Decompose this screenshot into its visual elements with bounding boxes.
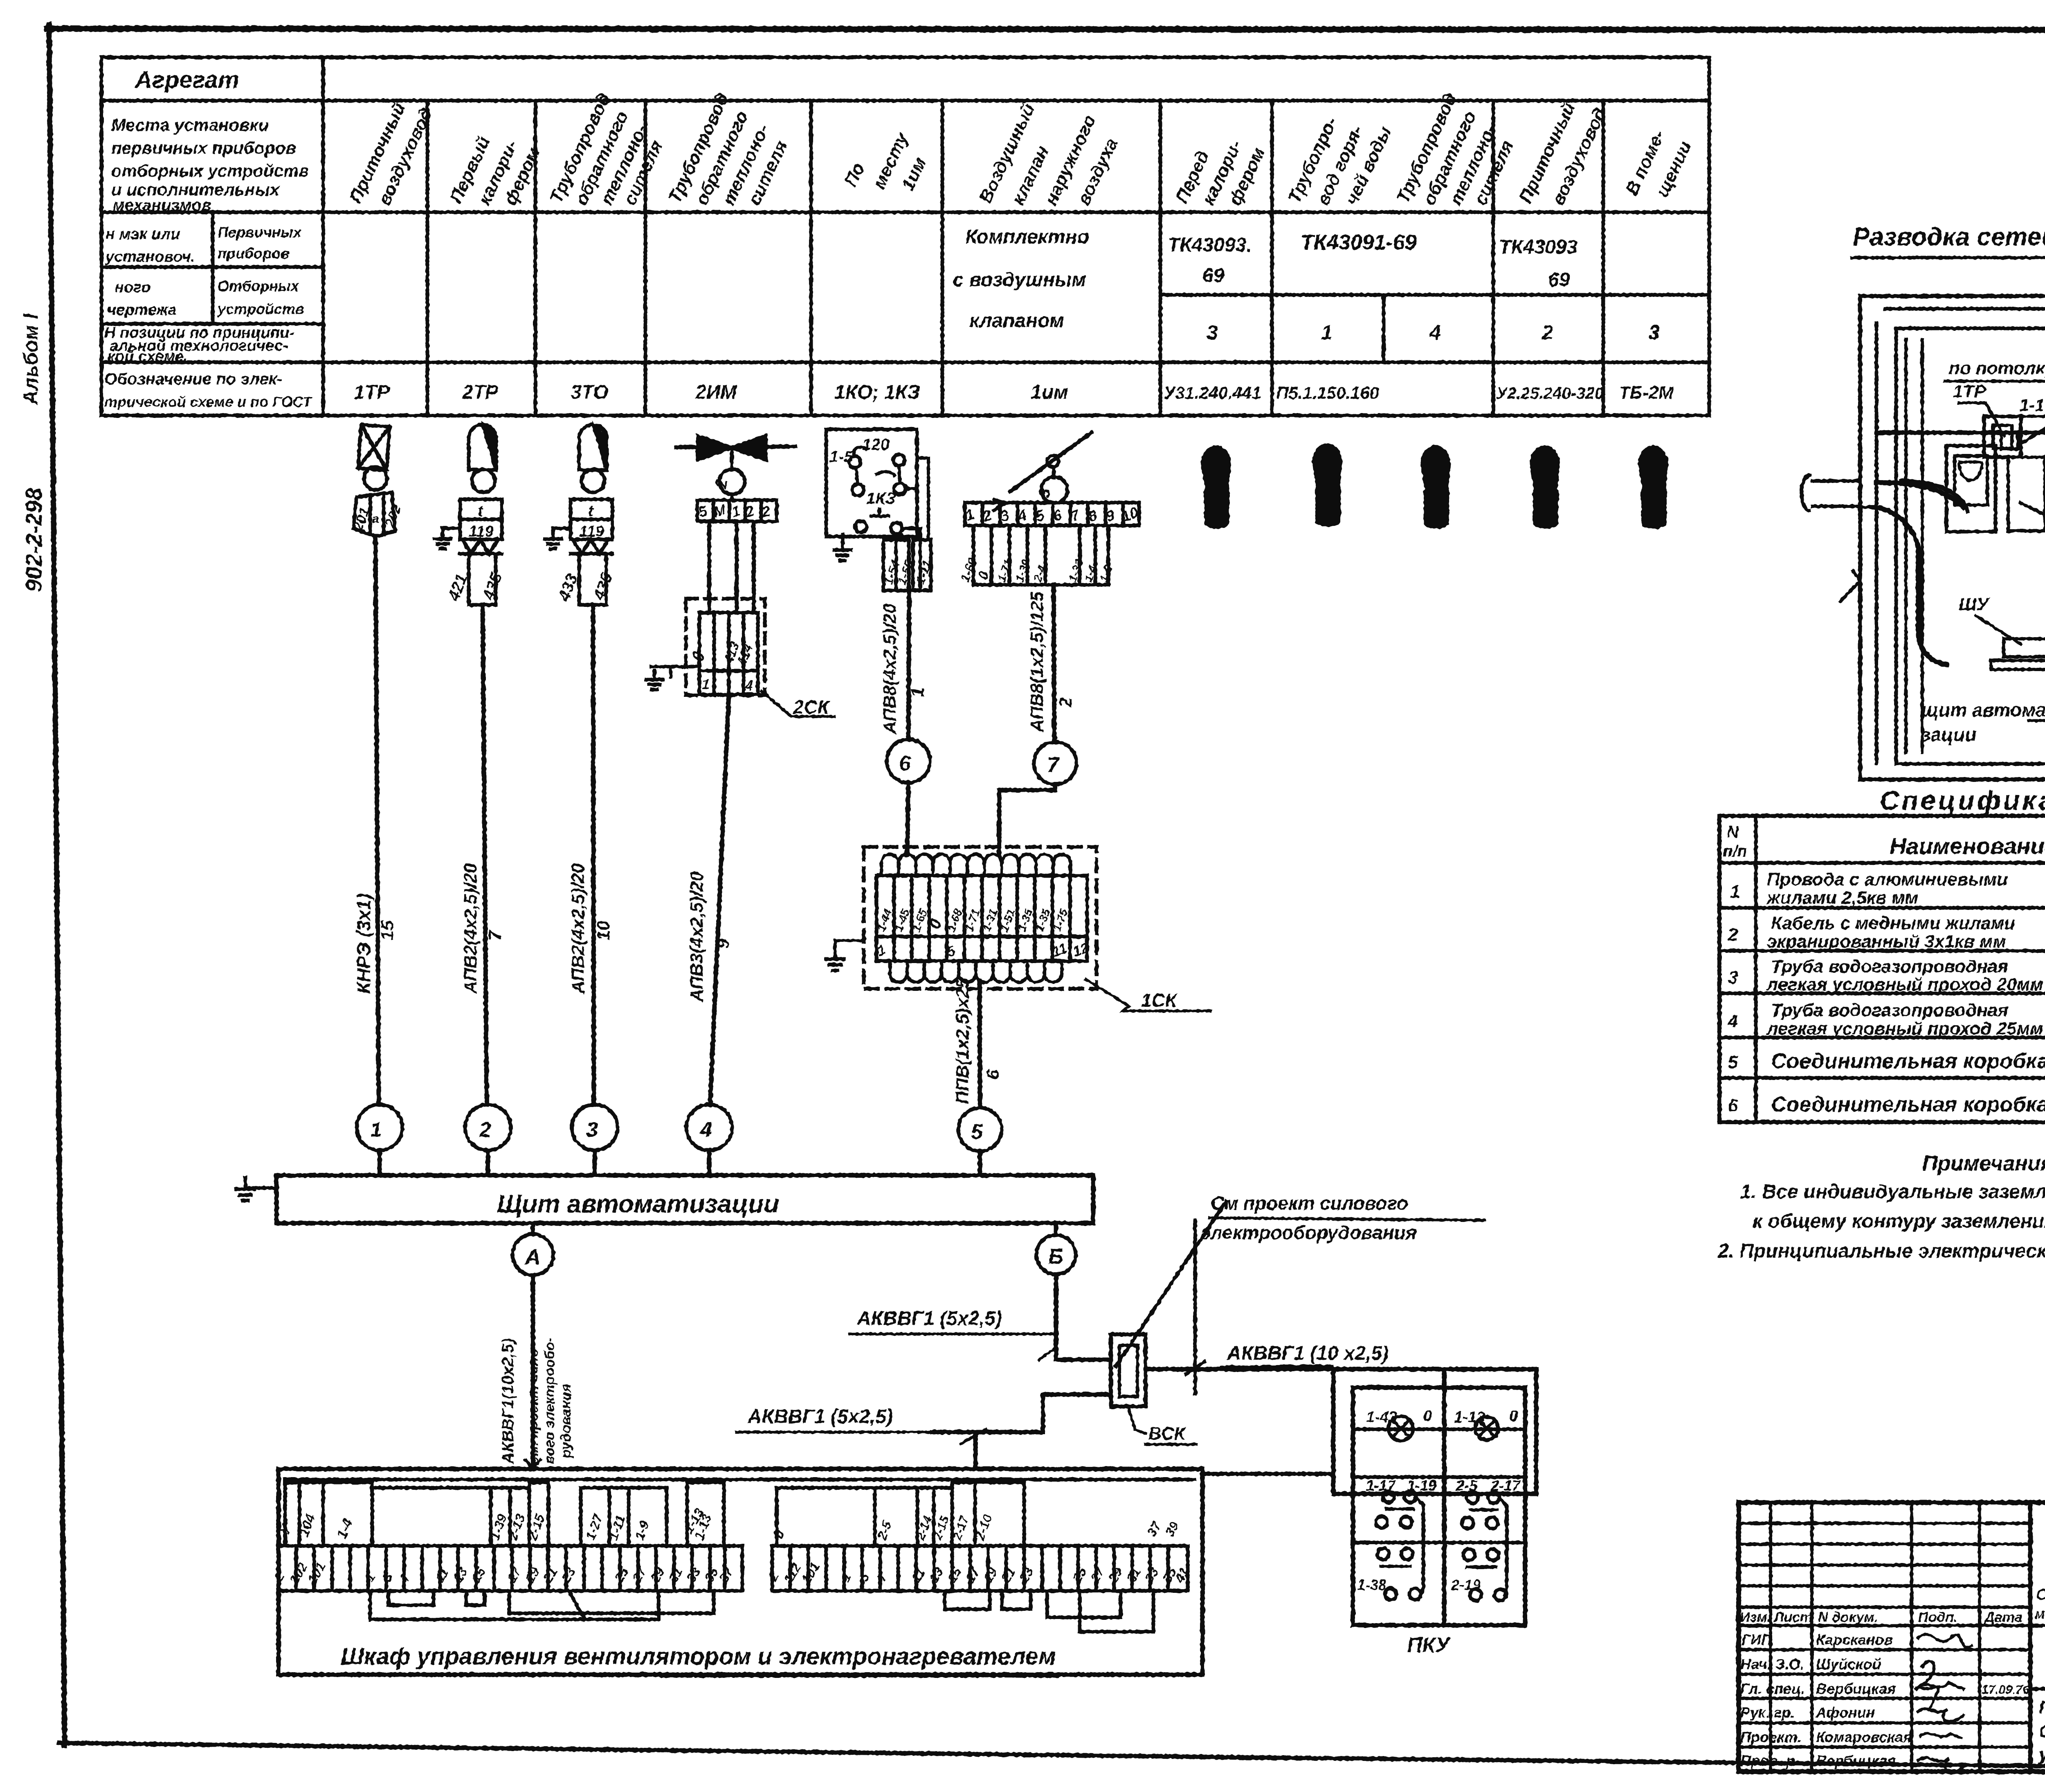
svg-text:см. проект сило-: см. проект сило-: [526, 1344, 541, 1464]
svg-text:Труба водогазопроводная: Труба водогазопроводная: [1771, 1000, 2008, 1020]
left terminal strip: [278, 1546, 742, 1591]
svg-text:Отборных: Отборных: [218, 278, 300, 294]
sheet top border: [47, 29, 2045, 30]
svg-text:31: 31: [1124, 1565, 1144, 1585]
svg-text:Альбом I: Альбом I: [19, 313, 42, 406]
svg-text:П5.1.150.160: П5.1.150.160: [1276, 383, 1379, 402]
svg-text:1-38: 1-38: [1357, 1576, 1387, 1593]
duct curve to fan: [1876, 483, 1963, 507]
svg-text:27: 27: [629, 1564, 650, 1585]
svg-text:1: 1: [702, 677, 710, 692]
svg-text:13: 13: [926, 1565, 946, 1585]
contact circles row4: [1385, 1588, 1396, 1600]
svg-text:ППВ(1х2,5)х25: ППВ(1х2,5)х25: [953, 978, 973, 1104]
right bracket jumpers: [945, 1591, 990, 1609]
svg-text:Изм.: Изм.: [1740, 1610, 1771, 1625]
svg-text:25: 25: [611, 1565, 631, 1585]
svg-text:1КО; 1КЗ: 1КО; 1КЗ: [834, 382, 920, 403]
relay terminal strips 1-52 1-53 1-11: [883, 540, 909, 591]
svg-text:Пров. р: Пров. р: [1740, 1752, 1795, 1769]
svg-text:По: По: [840, 159, 869, 190]
svg-text:Места установки: Места установки: [111, 115, 269, 135]
ПКУ divider vertical: [1442, 1369, 1447, 1625]
terminal strip 1..10: [965, 503, 1139, 525]
sensor 3TO bulb: [579, 425, 607, 470]
title block main vertical: [2028, 1502, 2033, 1772]
valve actuator circle 2: [719, 469, 745, 494]
duct from left wall (curved): [1860, 505, 1876, 509]
svg-text:АКВВГ1 (5х2,5): АКВВГ1 (5х2,5): [856, 1308, 1002, 1329]
svg-text:1СК: 1СК: [1141, 990, 1178, 1011]
contact circles row3: [1378, 1548, 1389, 1560]
1СК top humps: [881, 854, 1070, 876]
wire from relay to node 6: [908, 591, 909, 739]
bent wires in ПКУ: [1416, 1498, 1423, 1594]
svg-text:Соединительная коробка: Соединительная коробка: [1771, 1049, 2045, 1073]
svg-text:31: 31: [665, 1565, 685, 1585]
wire valve actuator to strip: [730, 494, 734, 500]
left grid horizontals: [1739, 1523, 2030, 1747]
svg-text:101: 101: [305, 1560, 328, 1586]
svg-text:легкая условный проход 20мм: легкая условный проход 20мм: [1766, 975, 2043, 995]
svg-text:33: 33: [683, 1565, 703, 1585]
svg-text:а: а: [372, 512, 379, 525]
svg-text:1-9: 1-9: [632, 1519, 652, 1542]
svg-text:29: 29: [1105, 1565, 1126, 1585]
svg-text:7: 7: [1047, 753, 1060, 777]
ground at 3TO: [553, 528, 571, 539]
wire node6 to 1СК: [907, 783, 908, 855]
svg-text:19: 19: [522, 1565, 542, 1585]
svg-text:щит автомати-: щит автомати-: [1921, 699, 2045, 721]
svg-text:Очистные сооружения для сто: Очистные сооружения для сточных вод от м…: [2036, 1586, 2045, 1603]
svg-text:3: 3: [586, 1118, 598, 1142]
node circle 7: [1034, 742, 1076, 784]
svg-text:ПКУ: ПКУ: [1407, 1633, 1451, 1657]
wire 3 to panel: [593, 1150, 597, 1175]
svg-text:9: 9: [713, 939, 733, 949]
svg-text:мобилей с расходом воды 20л: мобилей с расходом воды 20л/сек при обор…: [2035, 1606, 2045, 1622]
svg-text:102: 102: [287, 1560, 310, 1586]
svg-text:21: 21: [540, 1565, 560, 1585]
wire arrow into cabinet from А: [526, 1460, 540, 1469]
svg-text:3: 3: [1648, 321, 1660, 344]
plan outer wall left double: [1858, 296, 1862, 779]
node circle 4: [686, 1105, 732, 1150]
left strip numbers: [271, 1506, 737, 1586]
svg-text:легкая условный проход 25м: легкая условный проход 25мм: [1766, 1019, 2043, 1039]
svg-text:Шуйской: Шуйской: [1816, 1656, 1881, 1673]
svg-text:15: 15: [468, 1565, 489, 1585]
table horizontal lines: [101, 99, 1709, 103]
svg-text:2ТР: 2ТР: [462, 382, 499, 403]
ПКУ inner box: [1353, 1388, 1525, 1625]
left wall chase double lines: [1906, 339, 1922, 752]
svg-text:Соединительная коробка: Соединительная коробка: [1771, 1093, 2045, 1116]
svg-text:Гл. спец.: Гл. спец.: [1740, 1680, 1805, 1697]
wire 1 to panel: [378, 1150, 382, 1175]
svg-text:Шкаф управления вентилятор: Шкаф управления вентилятором и электрона…: [341, 1643, 1056, 1670]
svg-text:6: 6: [983, 1069, 1003, 1080]
svg-text:1: 1: [730, 502, 742, 521]
svg-text:1-39: 1-39: [1013, 557, 1033, 584]
svg-text:1им: 1им: [898, 154, 930, 194]
svg-text:1: 1: [1321, 321, 1333, 344]
svg-text:АПВ8(4х2,5)/20: АПВ8(4х2,5)/20: [880, 603, 900, 734]
row divider 2: [1353, 1541, 1525, 1545]
svg-text:Вербицкая: Вербицкая: [1816, 1680, 1896, 1697]
svg-text:вого электрообо-: вого электрообо-: [542, 1338, 557, 1464]
svg-text:17: 17: [962, 1564, 983, 1585]
plan inner room walls: [1896, 328, 2045, 764]
svg-text:37: 37: [1144, 1518, 1164, 1539]
wires from strip to 2СК: [709, 521, 754, 613]
svg-text:устройств: устройств: [217, 301, 304, 317]
svg-text:2. Принципиальные электричес: 2. Принципиальные электрические схемы см…: [1717, 1240, 2045, 1262]
svg-text:3: 3: [1207, 321, 1218, 344]
right strip numbers: [765, 1518, 1191, 1586]
2СК terminal block: [699, 613, 758, 694]
svg-text:1ТР: 1ТР: [1953, 382, 1986, 402]
svg-text:ТК43093: ТК43093: [1499, 236, 1578, 258]
svg-text:5: 5: [971, 1120, 983, 1144]
svg-text:10: 10: [593, 921, 613, 941]
plan outer wall top double: [1860, 294, 2045, 298]
svg-text:1: 1: [1730, 882, 1740, 902]
svg-text:ШУ: ШУ: [1959, 594, 1990, 614]
svg-text:АПВ2(4х2,5)/20: АПВ2(4х2,5)/20: [568, 863, 588, 994]
svg-text:39: 39: [1162, 1519, 1182, 1539]
svg-text:1-43: 1-43: [1366, 1409, 1397, 1426]
junction box 2СК dashed: [686, 599, 765, 695]
lamp row line: [1353, 1428, 1525, 1431]
svg-text:электрооборудования: электрооборудования: [1200, 1222, 1417, 1243]
ПКУ outer box: [1333, 1369, 1536, 1494]
svg-text:зации: зации: [1921, 724, 1976, 745]
svg-text:1ТР: 1ТР: [354, 382, 390, 403]
svg-text:33: 33: [1142, 1565, 1162, 1585]
svg-text:1: 1: [362, 1570, 378, 1584]
svg-text:1им: 1им: [1031, 382, 1068, 403]
main ceiling cable line: [1876, 431, 2045, 435]
svg-text:ГИП: ГИП: [1742, 1631, 1772, 1648]
wire ВСК to ПКУ АКВВГ1(10х2,5): [1146, 1367, 1333, 1372]
svg-text:N докум.: N докум.: [1818, 1610, 1878, 1625]
svg-text:2СК: 2СК: [793, 696, 830, 718]
svg-text:кой схеме.: кой схеме.: [107, 348, 188, 365]
svg-text:Наименование: Наименование: [1890, 833, 2045, 859]
wire 5 to panel: [978, 1151, 982, 1175]
svg-text:37: 37: [716, 1564, 737, 1585]
svg-text:АКВВГ1 (5х2,5): АКВВГ1 (5х2,5): [747, 1406, 893, 1428]
wire 1: [375, 537, 379, 1104]
svg-text:Щит автоматизации: Щит автоматизации: [497, 1190, 779, 1218]
svg-text:69: 69: [1202, 265, 1225, 287]
svg-text:2ИМ: 2ИМ: [695, 382, 737, 403]
svg-text:Спецификация: Спецификация: [1880, 785, 2045, 815]
svg-text:27: 27: [1087, 1564, 1108, 1585]
svg-text:ТБ-2М: ТБ-2М: [1619, 383, 1674, 403]
equipment below 1ТР: [2008, 457, 2045, 531]
left grid verticals: [1771, 1502, 1980, 1772]
svg-text:Труба водогазопроводная: Труба водогазопроводная: [1771, 957, 2008, 977]
svg-text:435: 435: [479, 570, 506, 603]
sheet left border: [49, 25, 65, 1745]
svg-text:механизмов: механизмов: [112, 196, 211, 214]
node circle Б: [1054, 1223, 1058, 1235]
svg-text:23: 23: [1016, 1565, 1036, 1585]
wire from strip to node 7: [1054, 585, 1054, 742]
svg-text:АПВ8(1х2,5)/125: АПВ8(1х2,5)/125: [1027, 591, 1047, 732]
svg-text:25: 25: [1069, 1565, 1090, 1585]
svg-text:Афонин: Афонин: [1816, 1704, 1875, 1721]
right header boxes: [777, 1488, 875, 1546]
sensor 2TP head box t/119: [460, 499, 502, 539]
svg-text:17.09.76: 17.09.76: [1982, 1683, 2029, 1697]
diffuser cone: [2021, 416, 2045, 524]
svg-text:1-27: 1-27: [583, 1511, 606, 1542]
svg-text:435: 435: [590, 570, 616, 603]
svg-text:4: 4: [1429, 321, 1441, 344]
sensor 3TO circle: [582, 469, 605, 492]
svg-text:Дата: Дата: [1983, 1610, 2023, 1625]
svg-text:3: 3: [1035, 487, 1054, 499]
svg-text:23: 23: [558, 1565, 578, 1585]
svg-text:4: 4: [745, 678, 753, 694]
svg-text:21: 21: [998, 1565, 1018, 1585]
svg-text:5: 5: [856, 1570, 873, 1584]
wire node7 to 1СК: [999, 784, 1055, 855]
svg-text:ВСК: ВСК: [1148, 1424, 1186, 1444]
svg-text:Комаровская: Комаровская: [1816, 1729, 1912, 1745]
svg-text:4: 4: [1728, 1011, 1738, 1031]
svg-text:101: 101: [799, 1560, 822, 1586]
spec table horizontals: [1719, 863, 2045, 1078]
sensor 2TP circle: [472, 469, 495, 492]
svg-text:КНРЭ (3х1): КНРЭ (3х1): [353, 894, 374, 994]
svg-text:4: 4: [700, 1118, 712, 1142]
svg-text:7: 7: [485, 930, 505, 941]
sensor 2TP bulb: [469, 425, 496, 470]
ШУ box: [2004, 639, 2045, 657]
title block outer: [1739, 1502, 2045, 1772]
node circle 5: [958, 1108, 1002, 1151]
svg-text:11: 11: [432, 1566, 452, 1585]
svg-text:5: 5: [1728, 1052, 1738, 1072]
svg-text:6: 6: [899, 752, 911, 775]
svg-text:N: N: [1727, 823, 1739, 841]
svg-text:Первичных: Первичных: [218, 224, 302, 240]
svg-text:ТК43091-69: ТК43091-69: [1301, 231, 1417, 254]
svg-text:69: 69: [1548, 269, 1570, 291]
svg-text:0: 0: [1509, 1408, 1518, 1425]
ink blob symbols (crossed-out devices): [1201, 443, 1668, 529]
svg-text:Вербицкая: Вербицкая: [1816, 1752, 1896, 1769]
ground at 2TP: [443, 528, 460, 539]
svg-text:2: 2: [479, 1118, 491, 1142]
svg-text:0: 0: [1423, 1408, 1432, 1425]
switch circle 3: [1041, 477, 1067, 503]
svg-text:Нач. З.О.: Нач. З.О.: [1740, 1656, 1805, 1673]
1СК label leader: [1086, 979, 1211, 1011]
svg-text:17: 17: [504, 1564, 525, 1585]
sensor 3TO zigzag: [571, 539, 612, 554]
svg-text:клапаном: клапаном: [969, 310, 1064, 332]
svg-text:Обозначение по элек-: Обозначение по элек-: [104, 370, 282, 388]
svg-text:АПВ3(4х2,5)/20: АПВ3(4х2,5)/20: [687, 871, 707, 1002]
svg-text:Агрегат: Агрегат: [134, 67, 239, 93]
sensor 2TP stem box 435: [469, 554, 496, 605]
2СК label leader: [762, 691, 834, 716]
см проект vertical leader: [1186, 1220, 1205, 1394]
svg-text:жилами 2,5кв мм: жилами 2,5кв мм: [1766, 888, 1918, 908]
1СК terminal block: [876, 876, 1087, 961]
svg-text:с воздушным: с воздушным: [953, 269, 1086, 291]
node circle 1: [357, 1105, 402, 1150]
см проект leader diagonal: [1116, 1201, 1226, 1366]
staff rows: [1740, 1631, 2029, 1769]
svg-text:А: А: [524, 1245, 541, 1269]
svg-text:АКВВГ1(10х2,5): АКВВГ1(10х2,5): [499, 1338, 517, 1464]
svg-text:t: t: [588, 503, 594, 520]
svg-text:управления на плане.: управления на плане.: [2038, 1745, 2045, 1765]
spec table frame: [1719, 816, 2045, 1122]
svg-text:трической схеме и по ГОСТ: трической схеме и по ГОСТ: [104, 393, 313, 410]
automation panel bar Щит автоматизации: [276, 1175, 1093, 1223]
svg-text:приборов: приборов: [218, 245, 290, 262]
lamp 1-43: [1389, 1416, 1413, 1441]
svg-text:ного: ного: [115, 279, 151, 296]
ground at panel: [245, 1178, 276, 1189]
valve 2ИМ: [676, 447, 795, 447]
svg-text:2: 2: [1056, 697, 1076, 708]
svg-text:112: 112: [781, 1561, 804, 1586]
svg-text:19: 19: [980, 1565, 1000, 1585]
terminal strip 5 М 1 2 2: [697, 500, 777, 521]
node circle 2: [465, 1105, 511, 1150]
svg-text:1-4: 1-4: [334, 1516, 356, 1540]
svg-text:2-5: 2-5: [874, 1518, 894, 1542]
sensor 2TP zigzag: [460, 539, 502, 554]
table outer frame: [101, 57, 1709, 415]
plan outer wall bottom: [1860, 777, 2045, 781]
sensor 1TP crossed box: [358, 425, 389, 470]
wire Б to ВСК: [1056, 1274, 1111, 1360]
svg-text:Проект.: Проект.: [1740, 1729, 1802, 1745]
ground at 1СК: [835, 941, 864, 959]
svg-text:первичных приборов: первичных приборов: [111, 138, 296, 157]
signatures squiggles: [1918, 1634, 1971, 1647]
svg-text:Приточная система П-1.: Приточная система П-1.: [2039, 1698, 2045, 1718]
svg-text:15: 15: [378, 921, 398, 941]
designation row values: [354, 382, 1674, 403]
cabinet inner top line: [285, 1478, 1194, 1482]
left wall arrow: [1840, 570, 1860, 601]
svg-text:отборных устройств: отборных устройств: [111, 161, 309, 180]
svg-text:0: 0: [769, 1527, 788, 1541]
svg-text:Подп.: Подп.: [1918, 1610, 1957, 1625]
table vertical lines: [321, 57, 325, 415]
sensor 1TP tag: [353, 492, 395, 537]
wire 5 from 1СК down: [980, 981, 980, 1107]
relay box 1КО/1КЗ: [826, 429, 917, 537]
svg-text:1: 1: [838, 1570, 854, 1584]
wire 4: [710, 694, 729, 1105]
svg-text:п/п: п/п: [1723, 842, 1747, 860]
shelf line: [1991, 660, 2045, 669]
svg-text:2: 2: [1542, 321, 1553, 344]
node circle 6: [887, 739, 930, 783]
svg-text:1-1: 1-1: [2020, 395, 2045, 415]
svg-text:Карсканов: Карсканов: [1816, 1631, 1893, 1648]
svg-text:Разводка сетей управления: Разводка сетей управления на плане: [1853, 223, 2045, 251]
sheet bottom border: [59, 1743, 2045, 1772]
equipment 1ТР box: [1984, 416, 2021, 457]
svg-text:Рук. гр.: Рук. гр.: [1740, 1704, 1795, 1721]
wire cabinet to ПКУ: [1202, 1472, 1333, 1476]
svg-text:2: 2: [1728, 925, 1738, 945]
left header boxes: [285, 1482, 299, 1546]
svg-text:15: 15: [944, 1565, 965, 1585]
svg-text:1КЗ: 1КЗ: [866, 490, 896, 508]
switch lever (col 7): [1010, 433, 1091, 492]
ВСК label leader: [1128, 1407, 1145, 1433]
sensor 3TO stem box 435: [579, 554, 606, 605]
svg-text:У31.240.441: У31.240.441: [1164, 383, 1261, 402]
wire 3: [593, 605, 594, 1105]
ground below relay box: [841, 535, 845, 550]
svg-text:экранированный 3х1кв мм: экранированный 3х1кв мм: [1767, 932, 2006, 952]
wire 4 to panel: [707, 1150, 712, 1175]
svg-text:к общему контуру заземл: к общему контуру заземления.: [1753, 1210, 2045, 1232]
svg-text:н мэк или: н мэк или: [106, 226, 180, 243]
contact circles row2: [1376, 1516, 1387, 1528]
svg-text:рудования: рудования: [558, 1384, 574, 1458]
svg-text:1-6: 1-6: [1097, 564, 1115, 584]
wire 2: [483, 605, 487, 1105]
lamp 1-13: [1475, 1417, 1498, 1440]
junction box ВСК: [1111, 1334, 1146, 1406]
svg-text:29: 29: [647, 1565, 667, 1585]
svg-text:t: t: [478, 503, 483, 520]
svg-text:установоч.: установоч.: [105, 248, 195, 265]
svg-text:Комплектно: Комплектно: [965, 226, 1089, 248]
svg-text:902-2-298: 902-2-298: [21, 487, 47, 592]
svg-text:чертежа: чертежа: [107, 301, 177, 319]
svg-text:1: 1: [908, 687, 928, 697]
svg-text:1. Все индивидуальные зазем: 1. Все индивидуальные заземлители присое…: [1740, 1181, 2045, 1203]
svg-text:1-71: 1-71: [995, 558, 1015, 584]
wire А to cabinet: [531, 1275, 535, 1469]
svg-text:Лист: Лист: [1773, 1610, 1812, 1625]
left bracket jumpers: [370, 1591, 658, 1619]
node circle А: [531, 1223, 535, 1234]
svg-text:АКВВГ1 (10 х2,5): АКВВГ1 (10 х2,5): [1227, 1343, 1389, 1364]
row divider: [1353, 1475, 1525, 1479]
fan box: [1946, 446, 1996, 532]
wire 2 to panel: [486, 1150, 490, 1175]
svg-text:11: 11: [908, 1566, 928, 1585]
contact circles row1: [1383, 1491, 1394, 1502]
sensor 3TO head box t/119: [571, 499, 612, 539]
sensor 1TP circle: [364, 467, 387, 490]
node circle 3: [572, 1105, 618, 1150]
right terminal strip: [772, 1546, 1188, 1591]
svg-text:Примечания: Примечания: [1922, 1152, 2045, 1175]
row line under numbers on right: [1160, 361, 1709, 364]
spec table verticals: [1756, 816, 2045, 1122]
svg-text:3ТО: 3ТО: [571, 382, 609, 403]
